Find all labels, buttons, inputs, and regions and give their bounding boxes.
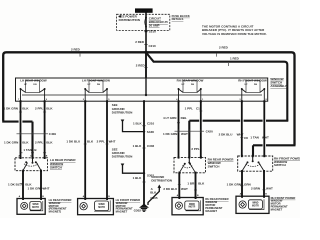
svg-text:2 RED: 2 RED — [219, 45, 229, 49]
svg-text:S210: S210 — [149, 30, 156, 34]
svg-text:1 TAN: 1 TAN — [250, 135, 258, 139]
svg-text:DISTRIBUTION: DISTRIBUTION — [112, 155, 133, 159]
svg-text:C305: C305 — [150, 196, 158, 200]
svg-text:BLK: BLK — [22, 140, 29, 144]
svg-text:SWITCH: SWITCH — [274, 163, 286, 167]
svg-text:2 DK BLU: 2 DK BLU — [219, 132, 233, 136]
svg-text:C302: C302 — [147, 144, 155, 148]
svg-text:ASSEMBLY: ASSEMBLY — [270, 84, 286, 88]
svg-text:1 DK GRN: 1 DK GRN — [163, 132, 177, 136]
svg-text:DISTRIBUTION: DISTRIBUTION — [112, 110, 133, 114]
svg-text:1 DK GRN: 1 DK GRN — [4, 106, 18, 110]
svg-text:MAGNET: MAGNET — [116, 210, 128, 214]
svg-text:C210: C210 — [147, 122, 155, 126]
svg-text:DISTRIBUTION: DISTRIBUTION — [151, 178, 172, 182]
svg-text:UP: UP — [181, 84, 185, 86]
svg-text:1: 1 — [202, 99, 204, 101]
svg-text:C210: C210 — [149, 44, 157, 48]
svg-text:1 BRN: 1 BRN — [187, 182, 196, 186]
svg-text:BLK: BLK — [150, 190, 157, 194]
svg-text:MOTR: MOTR — [98, 207, 105, 209]
svg-text:1 TAN: 1 TAN — [23, 148, 31, 152]
svg-text:LH FRONT WINDOW: LH FRONT WINDOW — [82, 78, 110, 82]
svg-text:WHT: WHT — [237, 132, 244, 136]
svg-text:WHT: WHT — [43, 186, 50, 190]
svg-text:1 BLK: 1 BLK — [133, 176, 143, 180]
svg-text:MAGNET: MAGNET — [205, 209, 217, 213]
svg-text:WHT: WHT — [181, 132, 188, 136]
svg-text:2 RED: 2 RED — [136, 64, 146, 68]
svg-text:B: B — [46, 156, 48, 158]
svg-text:BLK: BLK — [22, 106, 29, 110]
svg-text:1 DK GRN: 1 DK GRN — [227, 182, 241, 186]
svg-text:WIND: WIND — [32, 204, 38, 206]
svg-text:2 PPL: 2 PPL — [35, 106, 44, 110]
svg-text:DN: DN — [191, 84, 195, 86]
svg-text:C1: C1 — [196, 106, 200, 110]
svg-text:4 LT GRN: 4 LT GRN — [163, 116, 176, 120]
svg-text:1 BLK: 1 BLK — [133, 144, 143, 148]
svg-text:S438: S438 — [147, 130, 154, 134]
svg-text:C8: C8 — [244, 136, 248, 140]
svg-text:2 RED: 2 RED — [71, 48, 81, 52]
svg-text:SWITCH: SWITCH — [208, 164, 220, 168]
svg-text:MAGNET): MAGNET) — [49, 210, 62, 214]
svg-text:MOTR: MOTR — [252, 205, 259, 207]
svg-text:BLK: BLK — [46, 140, 53, 144]
svg-text:B: B — [265, 194, 267, 196]
svg-text:DETAILS: DETAILS — [172, 17, 184, 21]
svg-text:MOTR: MOTR — [32, 207, 39, 209]
svg-text:UP: UP — [87, 84, 91, 86]
svg-text:C420: C420 — [206, 129, 214, 133]
svg-text:HOT AT ALL TIMES: HOT AT ALL TIMES — [136, 10, 152, 13]
svg-text:1 DK BLU: 1 DK BLU — [8, 182, 22, 186]
svg-text:RH REAR WINDOW: RH REAR WINDOW — [177, 78, 204, 82]
svg-text:WHT: WHT — [109, 140, 116, 144]
svg-text:LH REAR WINDOW: LH REAR WINDOW — [20, 78, 47, 82]
svg-text:2 DK BLU: 2 DK BLU — [163, 187, 177, 191]
svg-text:VOLTAGE IS REMOVED FROM THE MO: VOLTAGE IS REMOVED FROM THE MOTOR. — [202, 32, 267, 36]
svg-text:5: 5 — [108, 99, 110, 101]
svg-text:GRN: GRN — [244, 182, 251, 186]
svg-text:WHT: WHT — [181, 187, 188, 191]
svg-text:DN: DN — [254, 84, 258, 86]
svg-text:SWITCH: SWITCH — [50, 165, 62, 169]
svg-text:2 PPL: 2 PPL — [35, 140, 44, 144]
svg-text:B: B — [197, 195, 199, 197]
svg-text:1 DK BLU: 1 DK BLU — [66, 140, 80, 144]
svg-text:A: A — [19, 195, 21, 198]
svg-text:G302: G302 — [134, 208, 142, 212]
svg-text:MOTR: MOTR — [189, 207, 196, 209]
svg-text:B: B — [42, 196, 44, 198]
svg-text:DISTRIBUTION: DISTRIBUTION — [119, 18, 140, 22]
svg-text:A: A — [177, 194, 179, 197]
svg-text:DBL: DBL — [181, 116, 187, 120]
svg-text:2 BRN: 2 BRN — [251, 186, 260, 190]
svg-text:BLK: BLK — [198, 182, 205, 186]
svg-text:WIND: WIND — [189, 204, 195, 206]
svg-text:1 PPL: 1 PPL — [185, 106, 194, 110]
svg-text:B: B — [108, 196, 110, 198]
svg-text:UP: UP — [24, 84, 28, 86]
svg-text:BLK: BLK — [87, 140, 94, 144]
svg-text:WHT: WHT — [262, 135, 269, 139]
svg-text:BLK: BLK — [46, 106, 53, 110]
svg-text:RH FRONT WINDOW: RH FRONT WINDOW — [238, 78, 267, 82]
svg-text:1 RED: 1 RED — [230, 56, 240, 60]
svg-text:UP: UP — [244, 84, 248, 86]
svg-text:DN: DN — [33, 84, 37, 86]
svg-text:1 DK GRN: 1 DK GRN — [4, 140, 18, 144]
svg-text:WHT: WHT — [266, 186, 273, 190]
svg-text:2 RED: 2 RED — [135, 40, 145, 44]
svg-text:WIND: WIND — [99, 204, 105, 206]
svg-text:MAGNET: MAGNET — [271, 207, 283, 211]
svg-text:WIND: WIND — [252, 203, 258, 205]
svg-text:DN: DN — [97, 84, 101, 86]
svg-text:B: B — [34, 148, 37, 152]
svg-text:1 BLK: 1 BLK — [133, 122, 143, 126]
svg-text:30 AMP: 30 AMP — [149, 23, 160, 27]
svg-text:2 PPL: 2 PPL — [191, 147, 200, 151]
svg-text:9: 9 — [46, 99, 48, 101]
svg-text:C409: C409 — [49, 132, 57, 136]
svg-text:1 DK GRN: 1 DK GRN — [28, 186, 42, 190]
svg-text:2 PPL: 2 PPL — [97, 140, 106, 144]
